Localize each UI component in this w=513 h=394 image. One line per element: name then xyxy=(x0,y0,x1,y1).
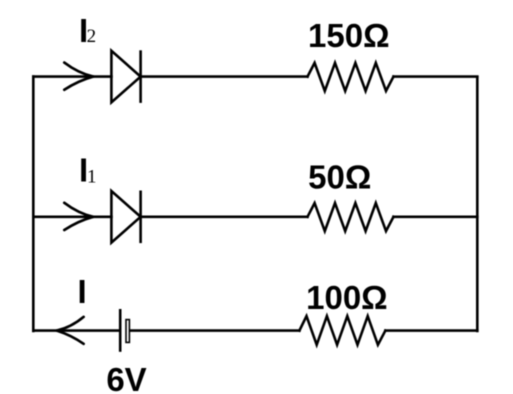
svg-text:2: 2 xyxy=(87,26,97,47)
svg-text:150Ω: 150Ω xyxy=(308,17,390,54)
svg-text:50Ω: 50Ω xyxy=(308,158,371,195)
svg-text:1: 1 xyxy=(87,166,97,187)
svg-text:I: I xyxy=(78,273,87,310)
svg-text:6V: 6V xyxy=(106,361,146,394)
svg-text:100Ω: 100Ω xyxy=(306,279,388,316)
